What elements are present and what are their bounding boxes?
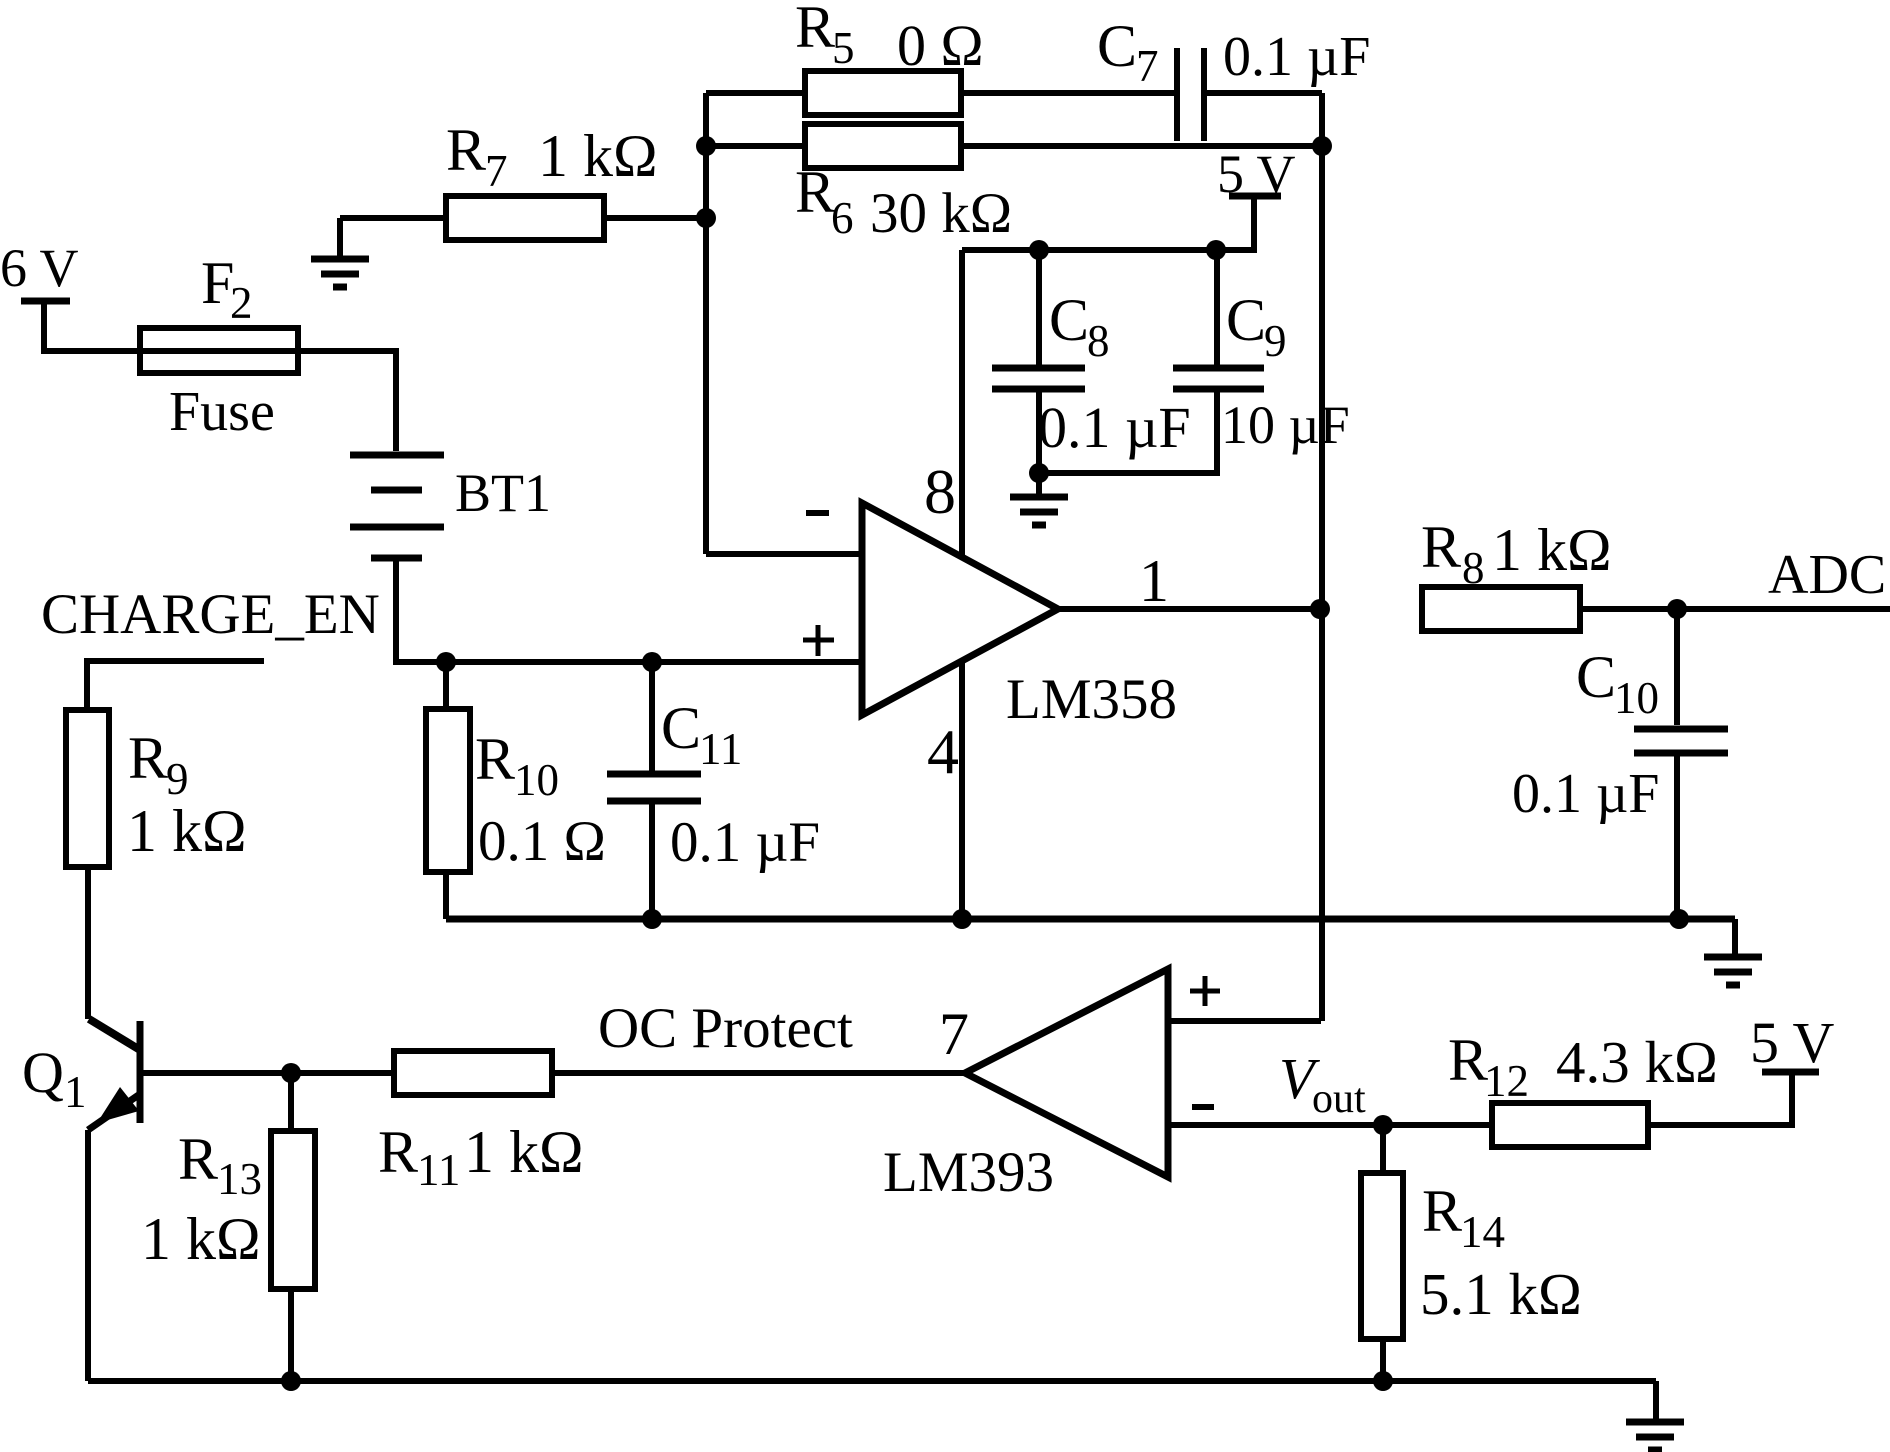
wire C9 top lead bbox=[1214, 250, 1220, 365]
svg-text:C: C bbox=[1226, 287, 1266, 353]
svg-text:C: C bbox=[661, 695, 701, 761]
svg-text:0.1 Ω: 0.1 Ω bbox=[478, 810, 606, 873]
ground near R7 bbox=[337, 218, 343, 256]
resistor R6 bbox=[805, 124, 961, 168]
svg-text:1: 1 bbox=[64, 1067, 87, 1117]
svg-text:2: 2 bbox=[230, 278, 253, 328]
wire Q1 base to node bbox=[143, 1070, 394, 1076]
node junction pin4/bus bbox=[952, 909, 972, 929]
wire fuse to battery bbox=[298, 351, 396, 451]
svg-text:C: C bbox=[1576, 644, 1616, 710]
svg-text:8: 8 bbox=[1462, 543, 1485, 593]
svg-text:0.1 µF: 0.1 µF bbox=[1512, 763, 1659, 825]
capacitor C11 bbox=[607, 771, 701, 778]
wire pin 8 bbox=[959, 250, 965, 557]
svg-text:5 V: 5 V bbox=[1750, 1010, 1834, 1075]
wire battery to non-inverting input bbox=[396, 561, 862, 662]
svg-text:LM358: LM358 bbox=[1006, 668, 1177, 731]
svg-text:CHARGE_EN: CHARGE_EN bbox=[41, 583, 380, 646]
resistor R10 bbox=[426, 709, 470, 872]
wire Q1 emitter to ground bus bbox=[85, 1130, 91, 1381]
wire C8 bottom lead bbox=[1036, 389, 1042, 473]
svg-text:10 µF: 10 µF bbox=[1221, 395, 1350, 455]
wire pin 4 bbox=[959, 661, 965, 919]
svg-text:R: R bbox=[1422, 1178, 1462, 1244]
svg-text:R: R bbox=[795, 159, 835, 225]
wire C7 to right vertical bbox=[1204, 90, 1322, 96]
wire C8 top lead bbox=[1036, 250, 1042, 365]
svg-text:1 kΩ: 1 kΩ bbox=[464, 1119, 584, 1185]
wire middle ground bus bbox=[446, 916, 1735, 923]
node 6V supply terminal bbox=[21, 298, 70, 305]
node junction battery/R10 bbox=[436, 652, 456, 672]
fuse F2 bbox=[140, 348, 298, 354]
node junction C8 top bbox=[1029, 240, 1049, 260]
resistor R8 bbox=[1422, 587, 1580, 631]
svg-text:Fuse: Fuse bbox=[169, 381, 275, 443]
svg-text:R: R bbox=[795, 0, 835, 60]
transistor Q1 collector diagonal bbox=[89, 1019, 140, 1050]
node junction ADC/C10 bbox=[1667, 599, 1687, 619]
svg-text:0.1 µF: 0.1 µF bbox=[1223, 26, 1370, 88]
node junction base/R13 bbox=[281, 1063, 301, 1083]
svg-text:30 kΩ: 30 kΩ bbox=[870, 182, 1012, 245]
wire R13 bottom lead bbox=[288, 1289, 294, 1381]
svg-text:10: 10 bbox=[514, 755, 559, 805]
svg-text:out: out bbox=[1312, 1076, 1366, 1122]
svg-text:0.1 µF: 0.1 µF bbox=[1038, 395, 1191, 460]
capacitor C9 bbox=[1173, 365, 1264, 372]
svg-text:6 V: 6 V bbox=[0, 238, 79, 298]
op-amp U1 LM358 triangle bbox=[862, 503, 1058, 715]
svg-text:0.1 µF: 0.1 µF bbox=[670, 811, 820, 874]
svg-text:R: R bbox=[128, 725, 168, 791]
node junction R6 left bbox=[696, 136, 716, 156]
svg-text:12: 12 bbox=[1484, 1056, 1529, 1106]
svg-text:5.1 kΩ: 5.1 kΩ bbox=[1420, 1261, 1582, 1327]
wire R9 to Q1 collector bbox=[85, 867, 91, 1019]
wire R10 top lead bbox=[443, 662, 449, 709]
svg-text:13: 13 bbox=[217, 1154, 262, 1204]
op-amp U2 minus symbol bbox=[1192, 1104, 1214, 1110]
ground bottom right bbox=[1653, 1381, 1659, 1419]
svg-text:R: R bbox=[378, 1119, 418, 1185]
wire ground bus bottom bbox=[88, 1378, 1656, 1384]
node junction R6/C7 right bbox=[1312, 136, 1332, 156]
wire LM358 minus input bbox=[706, 551, 862, 557]
node junction C11/bus bbox=[642, 909, 662, 929]
svg-text:R: R bbox=[446, 117, 486, 183]
svg-text:C: C bbox=[1097, 13, 1137, 79]
svg-text:R: R bbox=[1421, 514, 1461, 580]
wire R7 left lead bbox=[340, 215, 446, 221]
node 5V supply right bbox=[1762, 1069, 1819, 1076]
node junction C9 top bbox=[1206, 240, 1226, 260]
svg-text:R: R bbox=[1448, 1027, 1488, 1093]
svg-text:7: 7 bbox=[1136, 41, 1159, 91]
svg-text:R: R bbox=[475, 726, 515, 792]
svg-text:BT1: BT1 bbox=[455, 463, 551, 523]
battery BT1 bbox=[350, 452, 444, 459]
wire R12 to 5V bbox=[1648, 1075, 1792, 1125]
svg-text:8: 8 bbox=[924, 456, 956, 527]
wire C10 bottom lead bbox=[1674, 753, 1680, 919]
node 5V supply top bbox=[1229, 193, 1281, 200]
wire LM393 minus input to Vout bbox=[1168, 1122, 1492, 1128]
wire R14 bottom lead bbox=[1380, 1339, 1386, 1381]
svg-text:OC Protect: OC Protect bbox=[598, 997, 853, 1060]
resistor R14 bbox=[1361, 1173, 1403, 1339]
node junction C11 top bbox=[642, 652, 662, 672]
wire R13 top lead bbox=[288, 1073, 294, 1131]
op-amp U2 plus symbol bbox=[1190, 989, 1220, 994]
wire C11 bottom lead bbox=[649, 801, 655, 919]
resistor R12 bbox=[1492, 1103, 1648, 1147]
svg-text:4: 4 bbox=[927, 716, 959, 787]
svg-text:4.3 kΩ: 4.3 kΩ bbox=[1556, 1029, 1718, 1095]
capacitor C8 bbox=[992, 365, 1085, 372]
node junction C10/bus bbox=[1669, 909, 1689, 929]
transistor Q1 emitter arrow bbox=[97, 1087, 139, 1123]
wire R10 bottom lead bbox=[443, 872, 449, 919]
resistor R13 bbox=[271, 1131, 315, 1289]
wire R8 to ADC bbox=[1580, 606, 1890, 612]
svg-text:7: 7 bbox=[485, 146, 508, 196]
wire C9 bottom lead bbox=[1039, 389, 1217, 473]
capacitor C7 bbox=[1174, 48, 1180, 141]
wire R7 to node bbox=[604, 215, 706, 221]
resistor R5 bbox=[805, 71, 961, 115]
svg-text:1 kΩ: 1 kΩ bbox=[1492, 517, 1612, 583]
svg-text:1: 1 bbox=[1139, 548, 1169, 614]
svg-text:5 V: 5 V bbox=[1217, 144, 1296, 204]
wire R11 to LM393 output bbox=[552, 1070, 965, 1076]
transistor Q1 base bar bbox=[137, 1021, 144, 1123]
wire right vertical bbox=[1319, 93, 1325, 1021]
op-amp U1 minus symbol bbox=[806, 510, 829, 516]
svg-text:9: 9 bbox=[166, 754, 189, 804]
node Vout bbox=[1373, 1115, 1393, 1135]
wire pin 1 output bbox=[1058, 606, 1322, 612]
ground under C8 bbox=[1036, 473, 1042, 494]
svg-text:14: 14 bbox=[1460, 1207, 1505, 1257]
svg-text:8: 8 bbox=[1087, 316, 1110, 366]
wire R5 to C7 bbox=[961, 90, 1174, 96]
svg-text:1 kΩ: 1 kΩ bbox=[538, 123, 658, 189]
svg-text:6: 6 bbox=[831, 193, 854, 243]
svg-text:R: R bbox=[178, 1126, 218, 1192]
ground middle right bbox=[1732, 919, 1738, 954]
op-amp U1 plus symbol bbox=[803, 638, 834, 643]
resistor R11 bbox=[394, 1051, 552, 1095]
svg-text:11: 11 bbox=[699, 724, 742, 774]
svg-text:9: 9 bbox=[1264, 316, 1287, 366]
node junction R7/feedback bbox=[696, 208, 716, 228]
resistor R9 bbox=[66, 710, 109, 867]
op-amp U2 LM393 triangle bbox=[965, 969, 1168, 1177]
wire LM393 plus input bbox=[1168, 1018, 1321, 1024]
svg-text:C: C bbox=[1049, 287, 1089, 353]
svg-text:LM393: LM393 bbox=[883, 1141, 1054, 1204]
wire C11 top lead bbox=[649, 662, 655, 771]
wire R5 left lead bbox=[706, 90, 805, 96]
svg-text:1 kΩ: 1 kΩ bbox=[127, 798, 247, 864]
capacitor C10 bbox=[1634, 726, 1728, 733]
node junction pin1/R8 bbox=[1310, 599, 1330, 619]
svg-text:Q: Q bbox=[22, 1040, 64, 1105]
node junction R14/bus bbox=[1373, 1371, 1393, 1391]
wire feedback vertical bbox=[703, 93, 709, 554]
svg-text:7: 7 bbox=[939, 1001, 969, 1067]
svg-text:1 kΩ: 1 kΩ bbox=[141, 1206, 261, 1272]
node junction R13/bus bbox=[281, 1371, 301, 1391]
svg-text:10: 10 bbox=[1614, 673, 1659, 723]
svg-text:5: 5 bbox=[832, 23, 855, 73]
wire 5V rail bbox=[962, 199, 1254, 250]
wire Vout to R14 bbox=[1380, 1125, 1386, 1173]
transistor Q1 emitter diagonal bbox=[88, 1094, 140, 1130]
wire C10 top lead bbox=[1674, 609, 1680, 725]
wire R6 left lead bbox=[706, 143, 805, 149]
svg-text:ADC: ADC bbox=[1768, 544, 1886, 606]
resistor R7 bbox=[446, 196, 604, 240]
svg-text:11: 11 bbox=[417, 1145, 460, 1195]
wire CHARGE_EN lead bbox=[87, 661, 264, 710]
svg-text:0 Ω: 0 Ω bbox=[897, 13, 984, 78]
wire R6 to right node bbox=[961, 143, 1322, 149]
node junction C8/C9 ground bbox=[1029, 463, 1049, 483]
